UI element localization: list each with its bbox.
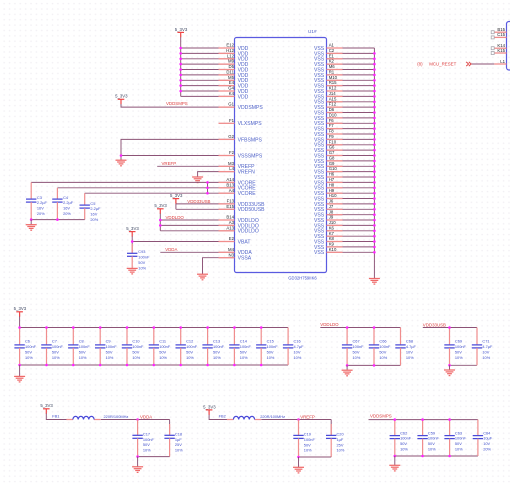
- capacitor C64: [473, 420, 493, 456]
- pin F12 (VSS): [314, 102, 343, 111]
- capacitor C18: [164, 424, 183, 457]
- wire to FB2: [209, 415, 233, 420]
- net label MCU_RESET: [417, 61, 456, 66]
- svg-text:10V: 10V: [406, 349, 413, 354]
- svg-text:D5: D5: [229, 64, 235, 69]
- svg-text:50V: 50V: [304, 442, 311, 447]
- capacitor C14: [229, 328, 251, 366]
- pin G1 (VDDSMPS): [219, 102, 264, 111]
- capacitor C19: [293, 420, 315, 458]
- pin F7 (VSS): [314, 123, 343, 132]
- capacitor C20: [326, 424, 345, 457]
- pin F8 (VSS): [314, 129, 343, 138]
- svg-text:100nF: 100nF: [186, 344, 198, 349]
- svg-text:H12: H12: [226, 48, 234, 53]
- ferrite bead FB1: [66, 416, 100, 419]
- capacitor C9: [95, 328, 117, 366]
- pin F9 (VSS): [314, 134, 343, 143]
- wire to FB1: [46, 414, 73, 420]
- svg-text:50V: 50V: [455, 441, 462, 446]
- svg-text:K6: K6: [329, 225, 335, 230]
- svg-text:5_3V3: 5_3V3: [14, 306, 27, 311]
- pin K15: [491, 48, 506, 55]
- svg-text:100nF: 100nF: [353, 344, 365, 349]
- capacitor C6: [14, 328, 36, 366]
- wire VDD33USB gnd stub: [449, 365, 451, 370]
- wire VDDA stub: [160, 251, 234, 253]
- svg-text:VCORE: VCORE: [238, 191, 257, 197]
- svg-text:50V: 50V: [353, 349, 360, 354]
- svg-text:100nF: 100nF: [240, 344, 252, 349]
- pin N3 (VSSA): [219, 252, 252, 261]
- svg-text:A3: A3: [229, 220, 235, 225]
- node VCORE junctions: [206, 181, 209, 194]
- capacitor C16: [283, 328, 304, 366]
- svg-text:VSSA: VSSA: [238, 256, 252, 262]
- pin M5 (VDD): [219, 75, 249, 84]
- node VDDLDO cap junctions: [346, 326, 376, 367]
- svg-text:J10: J10: [329, 220, 337, 225]
- svg-text:G2: G2: [228, 134, 234, 139]
- pin A1 (VSS): [314, 43, 343, 52]
- svg-text:C6: C6: [25, 339, 30, 344]
- svg-text:10V: 10V: [294, 349, 301, 354]
- svg-text:100nF: 100nF: [132, 344, 144, 349]
- capacitor C63: [444, 420, 466, 456]
- wire VDDLDO gnd stub: [346, 365, 348, 370]
- wire VCORE row B13: [57, 187, 234, 189]
- capacitor C59: [417, 420, 439, 456]
- wire C20 drop: [330, 420, 332, 436]
- pin F2 (VSSSMPS): [219, 150, 263, 159]
- svg-text:FB1: FB1: [52, 413, 59, 418]
- svg-text:J7: J7: [329, 204, 334, 209]
- pin G6 (VSS): [314, 145, 343, 154]
- svg-text:VDDLDO: VDDLDO: [320, 322, 339, 327]
- ground VDDSMPS caps: [389, 465, 400, 471]
- wire MCU_RESET: [472, 63, 495, 65]
- node MCU_RESET off-page connector: [466, 62, 471, 66]
- svg-text:M4: M4: [228, 247, 235, 252]
- pin H8 (VSS): [314, 182, 343, 191]
- svg-text:50V: 50V: [428, 441, 435, 446]
- svg-text:K7: K7: [329, 231, 335, 236]
- svg-text:G10: G10: [329, 166, 338, 171]
- svg-text:E12: E12: [226, 43, 234, 48]
- svg-text:F6: F6: [329, 118, 335, 123]
- pin D6 (VSS): [314, 107, 343, 116]
- svg-text:C59: C59: [428, 430, 435, 435]
- svg-text:5_3V3: 5_3V3: [126, 226, 139, 231]
- capacitor C93: [127, 244, 150, 270]
- node VREFP junction: [297, 418, 300, 421]
- svg-text:50V: 50V: [52, 349, 59, 354]
- svg-text:16V: 16V: [63, 206, 70, 211]
- node cap rail junctions: [30, 218, 59, 221]
- svg-text:K15: K15: [497, 48, 505, 53]
- svg-text:M10: M10: [329, 75, 338, 80]
- svg-text:VDD50USB: VDD50USB: [238, 207, 265, 213]
- svg-text:10%: 10%: [213, 355, 221, 360]
- svg-text:C19: C19: [304, 432, 311, 437]
- ferrite bead FB2: [227, 416, 261, 419]
- svg-text:C69: C69: [455, 339, 462, 344]
- svg-text:10%: 10%: [428, 447, 436, 452]
- svg-text:R1: R1: [329, 70, 335, 75]
- svg-text:100nF: 100nF: [106, 344, 118, 349]
- svg-text:100nF: 100nF: [455, 344, 467, 349]
- svg-text:VDDSMPS: VDDSMPS: [166, 101, 188, 106]
- pin H7 (VSS): [314, 177, 343, 186]
- svg-text:100nF: 100nF: [159, 344, 171, 349]
- svg-text:K12: K12: [329, 86, 337, 91]
- pin F10 (VSS): [314, 139, 343, 148]
- wire FB2 to VREFP: [261, 419, 331, 421]
- ground VSSA: [197, 274, 208, 280]
- svg-text:J8: J8: [329, 209, 334, 214]
- svg-text:E1: E1: [329, 53, 335, 58]
- svg-text:100nF: 100nF: [79, 344, 91, 349]
- svg-text:F13: F13: [227, 199, 235, 204]
- wire VDDLDO top bus: [320, 327, 400, 329]
- capacitor C3: [26, 182, 48, 219]
- svg-text:25V: 25V: [175, 442, 182, 447]
- svg-text:G4: G4: [228, 86, 234, 91]
- wire decoupling bottom bus: [20, 364, 289, 366]
- svg-text:C67: C67: [353, 339, 360, 344]
- svg-text:A4: A4: [229, 188, 235, 193]
- svg-text:B14: B14: [226, 215, 234, 220]
- power 5_3V3 FB1: [40, 403, 53, 414]
- svg-text:K2: K2: [329, 59, 335, 64]
- ground VDD33USB caps: [444, 370, 455, 376]
- svg-text:10%: 10%: [353, 355, 361, 360]
- svg-text:R15: R15: [329, 80, 337, 85]
- svg-text:5_3V3: 5_3V3: [203, 404, 216, 409]
- pin K9 (VSS): [314, 242, 343, 251]
- svg-text:VDDLDO: VDDLDO: [238, 229, 259, 235]
- svg-text:C8: C8: [79, 339, 84, 344]
- svg-text:VSS: VSS: [314, 250, 325, 256]
- svg-text:C10: C10: [132, 339, 140, 344]
- svg-text:100nF: 100nF: [455, 436, 467, 441]
- svg-text:J6: J6: [329, 199, 334, 204]
- wire VSSA: [203, 258, 235, 275]
- svg-text:U1#: U1#: [308, 29, 317, 34]
- pin M3 (VREFP): [219, 161, 256, 170]
- capacitor C10: [122, 328, 144, 366]
- wire FB1 bottom bus: [138, 456, 170, 458]
- svg-text:VDD33USB: VDD33USB: [187, 199, 210, 204]
- wire VDDSMPS: [121, 104, 235, 107]
- svg-text:10%: 10%: [400, 447, 408, 452]
- pin H9 (VSS): [314, 188, 343, 197]
- pin E12 (VDD): [219, 43, 249, 52]
- svg-text:10%: 10%: [379, 355, 387, 360]
- svg-text:10%: 10%: [79, 355, 87, 360]
- svg-text:10%: 10%: [267, 355, 275, 360]
- svg-text:10%: 10%: [159, 355, 167, 360]
- pin D11 (VDD): [219, 70, 249, 79]
- capacitor C13: [202, 328, 224, 366]
- op-amp U1# main MCU body GD32H759IIK6: [235, 29, 327, 280]
- power 5_3V3 FB2: [203, 404, 216, 415]
- pin J10 (VSS): [314, 220, 343, 229]
- capacitor C8: [68, 328, 90, 366]
- svg-text:C2: C2: [329, 48, 335, 53]
- node VDDA junction: [136, 418, 139, 421]
- power 5_3V3 VDD33USB: [170, 193, 183, 204]
- wire VDD33USB rows: [176, 199, 235, 210]
- capacitor C15: [256, 328, 278, 366]
- pin H12 (VDD): [219, 48, 249, 57]
- svg-text:L4: L4: [229, 166, 234, 171]
- svg-text:VBAT: VBAT: [238, 239, 251, 245]
- svg-text:C16: C16: [294, 339, 301, 344]
- svg-text:VDDSMPS: VDDSMPS: [370, 414, 392, 419]
- pin M6 (VSS): [314, 64, 343, 73]
- svg-text:A14: A14: [226, 177, 234, 182]
- svg-text:VFBSMPS: VFBSMPS: [238, 137, 263, 143]
- wire VCORE row A14: [31, 181, 234, 183]
- svg-text:B13: B13: [226, 182, 234, 187]
- svg-text:50V: 50V: [159, 349, 166, 354]
- svg-text:50V: 50V: [186, 349, 193, 354]
- svg-text:F9: F9: [329, 134, 335, 139]
- svg-text:C63: C63: [455, 430, 462, 435]
- wire 3V3 drop: [19, 317, 21, 328]
- wire FB1 gnd stub: [137, 457, 139, 467]
- pin B14 (VDDLDO): [219, 215, 259, 224]
- svg-text:L12: L12: [227, 53, 235, 58]
- svg-text:220R/100MHz: 220R/100MHz: [104, 414, 129, 419]
- svg-text:VREFP: VREFP: [300, 414, 315, 419]
- wire VDDSMPS top bus: [369, 419, 478, 421]
- svg-text:10%: 10%: [294, 355, 302, 360]
- svg-text:5_3V3: 5_3V3: [115, 94, 128, 99]
- svg-text:220R/100MHz: 220R/100MHz: [260, 414, 285, 419]
- svg-text:50V: 50V: [240, 349, 247, 354]
- svg-text:4.7µF: 4.7µF: [294, 344, 305, 349]
- pin B13 (VCORE): [219, 182, 257, 191]
- pin K12 (VSS): [314, 86, 343, 95]
- pin A4 (VCORE): [219, 188, 257, 197]
- svg-text:4.7µF: 4.7µF: [482, 344, 493, 349]
- svg-text:(8): (8): [417, 61, 423, 66]
- pin F1 (VLXSMPS): [219, 118, 263, 127]
- svg-text:10V: 10V: [482, 349, 489, 354]
- pin A15 (VSS): [314, 96, 343, 105]
- svg-text:M6: M6: [329, 64, 336, 69]
- svg-text:VDDA: VDDA: [165, 247, 177, 252]
- svg-text:C15: C15: [497, 32, 505, 37]
- capacitor C7: [41, 328, 63, 366]
- pin C2 (VSS): [314, 48, 343, 57]
- svg-text:E4: E4: [229, 80, 235, 85]
- wire bank ground drop: [19, 365, 21, 376]
- pin D10 (VSS): [314, 113, 343, 122]
- svg-text:C3: C3: [37, 195, 42, 200]
- svg-text:10%: 10%: [455, 447, 463, 452]
- node VDDLDO junctions: [159, 219, 162, 227]
- svg-text:A15: A15: [329, 96, 337, 101]
- svg-text:100nF: 100nF: [267, 344, 279, 349]
- power 5_3V3 VBAT: [126, 226, 139, 237]
- svg-text:VDD: VDD: [238, 94, 249, 100]
- svg-text:20%: 20%: [63, 211, 71, 216]
- svg-text:VSSSMPS: VSSSMPS: [238, 153, 263, 159]
- ground decoupling bank: [14, 376, 25, 382]
- svg-text:VREFN: VREFN: [238, 170, 256, 176]
- ground FB2 caps: [293, 467, 304, 473]
- capacitor C4: [52, 188, 74, 220]
- svg-text:100nF: 100nF: [400, 436, 412, 441]
- svg-text:16V: 16V: [90, 212, 97, 217]
- svg-text:2.2µF: 2.2µF: [37, 200, 48, 205]
- svg-text:100nF: 100nF: [143, 437, 155, 442]
- wire VCORE row A4: [85, 192, 235, 194]
- pin H6 (VSS): [314, 172, 343, 181]
- svg-text:50V: 50V: [213, 349, 220, 354]
- svg-text:D10: D10: [329, 113, 337, 118]
- svg-text:50V: 50V: [400, 441, 407, 446]
- svg-text:5_3V3: 5_3V3: [40, 403, 53, 408]
- svg-text:C64: C64: [483, 430, 491, 435]
- svg-text:4.7µF: 4.7µF: [406, 344, 417, 349]
- svg-text:D6: D6: [329, 107, 335, 112]
- svg-text:50V: 50V: [379, 349, 386, 354]
- capacitor C62: [390, 420, 412, 456]
- pin E2 (VBAT): [219, 236, 251, 245]
- ground FB1 caps: [132, 467, 143, 473]
- svg-text:MCU_RESET: MCU_RESET: [429, 61, 456, 66]
- pin M10 (VSS): [314, 75, 343, 84]
- node FB1 gnd junction: [136, 455, 139, 458]
- svg-text:F12: F12: [329, 102, 337, 107]
- ground VSS bus: [369, 279, 380, 285]
- svg-text:50V: 50V: [138, 260, 145, 265]
- wire VFBSMPS: [121, 139, 235, 160]
- svg-text:K9: K9: [329, 242, 335, 247]
- svg-text:A1: A1: [329, 43, 335, 48]
- capacitor C68: [395, 328, 416, 366]
- wire C18 drop: [169, 420, 171, 436]
- svg-text:M3: M3: [228, 161, 235, 166]
- svg-text:1µF: 1µF: [175, 437, 182, 442]
- svg-text:VDD33USB: VDD33USB: [423, 322, 446, 327]
- svg-text:100nF: 100nF: [428, 436, 440, 441]
- node VSSSMPS junction: [120, 154, 123, 157]
- svg-text:C71: C71: [482, 339, 489, 344]
- svg-text:C68: C68: [406, 339, 413, 344]
- svg-text:H6: H6: [329, 172, 335, 177]
- svg-text:50V: 50V: [79, 349, 86, 354]
- pin F6 (VSS): [314, 118, 343, 127]
- svg-text:10%: 10%: [337, 448, 345, 453]
- svg-text:100nF: 100nF: [138, 255, 150, 260]
- svg-text:10%: 10%: [106, 355, 114, 360]
- svg-text:G6: G6: [329, 145, 335, 150]
- pin E1 (VSS): [314, 53, 343, 62]
- svg-text:C12: C12: [186, 339, 193, 344]
- svg-text:10%: 10%: [186, 355, 194, 360]
- svg-text:M9: M9: [228, 59, 235, 64]
- svg-text:C7: C7: [52, 339, 57, 344]
- wire FB2 bottom bus: [299, 456, 332, 458]
- pin H10 (VSS): [314, 193, 343, 202]
- svg-text:FB2: FB2: [219, 413, 226, 418]
- svg-text:1µF: 1µF: [337, 437, 344, 442]
- pin G8 (VSS): [314, 156, 343, 165]
- pin C15: [491, 32, 506, 39]
- svg-text:16V: 16V: [37, 206, 44, 211]
- svg-text:VDDLDO: VDDLDO: [166, 215, 185, 220]
- svg-text:D11: D11: [226, 70, 234, 75]
- wire VREFP: [157, 165, 234, 167]
- power 5_3V3 VDDSMPS: [115, 94, 128, 105]
- pin J9 (VSS): [314, 215, 343, 224]
- pin R1 (VSS): [314, 70, 343, 79]
- svg-text:J9: J9: [329, 215, 334, 220]
- pin K2 (VSS): [314, 59, 343, 68]
- wire VDD33USB top bus: [423, 327, 477, 329]
- svg-text:5_3V3: 5_3V3: [175, 27, 188, 32]
- pin A3 (VDDLDO): [219, 220, 259, 229]
- wire VDDLDO rows: [160, 214, 234, 231]
- svg-text:H10: H10: [329, 193, 337, 198]
- svg-text:E2: E2: [229, 236, 235, 241]
- svg-text:50V: 50V: [106, 349, 113, 354]
- pin G2 (VFBSMPS): [219, 134, 263, 143]
- pin G4 (VDD): [219, 86, 249, 95]
- pin G10 (VSS): [314, 166, 343, 175]
- svg-text:F10: F10: [329, 139, 337, 144]
- pin A14 (VCORE): [219, 177, 257, 186]
- svg-text:G7: G7: [329, 150, 335, 155]
- pin J8 (VSS): [314, 209, 343, 218]
- ground VSSSMPS: [116, 160, 127, 166]
- svg-text:K10: K10: [329, 247, 337, 252]
- node bank junctions: [18, 326, 262, 366]
- svg-text:H9: H9: [329, 188, 335, 193]
- ground C93: [127, 268, 138, 274]
- svg-text:VDDSMPS: VDDSMPS: [238, 105, 264, 111]
- capacitor C12: [176, 328, 198, 366]
- svg-text:50V: 50V: [143, 442, 150, 447]
- svg-text:2.2µF: 2.2µF: [63, 200, 74, 205]
- ground VCORE caps: [26, 225, 37, 231]
- node VSS junctions: [373, 52, 376, 254]
- svg-text:10%: 10%: [240, 355, 248, 360]
- svg-text:VDDA: VDDA: [140, 414, 152, 419]
- wire FB2 gnd stub: [298, 457, 300, 467]
- svg-text:2.2µF: 2.2µF: [90, 206, 101, 211]
- node VDD33USB cap junctions: [448, 326, 451, 366]
- pin L12 (VDD): [219, 53, 249, 62]
- svg-text:50V: 50V: [25, 349, 32, 354]
- node FB2 gnd junction: [297, 456, 300, 459]
- capacitor C69: [444, 328, 466, 366]
- power 5_3V3 decoupling bank: [14, 306, 27, 317]
- svg-text:10%: 10%: [304, 448, 312, 453]
- svg-text:20%: 20%: [483, 447, 491, 452]
- capacitor C5: [80, 193, 102, 222]
- pin D5 (VDD): [219, 64, 249, 73]
- pin K6 (VSS): [314, 225, 343, 234]
- wire VSS bus: [327, 48, 375, 279]
- pin L4 (VREFN): [219, 166, 256, 175]
- svg-text:GD32H759IIK6: GD32H759IIK6: [288, 275, 317, 280]
